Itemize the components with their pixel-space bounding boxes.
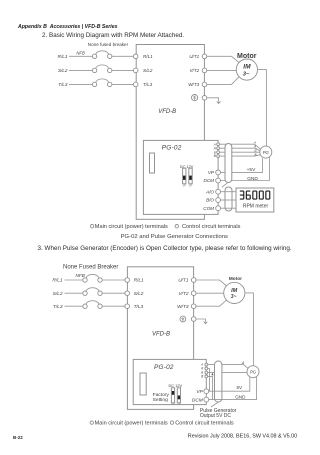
- svg-text:R/L1: R/L1: [143, 54, 153, 59]
- leader to note: [211, 402, 219, 407]
- svg-text:IM: IM: [243, 64, 251, 71]
- shaft wire motor to PG: [245, 293, 254, 366]
- wire PE to ground: [196, 319, 205, 322]
- terminal /A: [217, 147, 220, 150]
- terminal /B: [217, 155, 220, 158]
- terminal B: [217, 151, 220, 154]
- svg-text:DCM: DCM: [204, 178, 215, 183]
- svg-text:PG-02 and Pulse Generator Conn: PG-02 and Pulse Generator Connections: [121, 234, 228, 240]
- svg-text:A/O: A/O: [205, 189, 214, 194]
- wire B to PG: [220, 151, 260, 153]
- wire S/L2 to NFB: [65, 292, 83, 294]
- terminal T/L3: [125, 304, 130, 309]
- DIP switch 1: [183, 168, 186, 187]
- terminal U/T1: [191, 278, 196, 283]
- terminal /A: [205, 367, 208, 370]
- svg-text:3~: 3~: [231, 294, 237, 300]
- terminal VP: [204, 389, 209, 394]
- wire V/T2 to motor: [207, 69, 236, 71]
- DIP switch 2: [189, 168, 193, 187]
- legend: main circuit terminals: [90, 224, 168, 230]
- wire R/L1 to NFB: [65, 279, 83, 281]
- terminal V/T2: [202, 68, 207, 73]
- wire T/L3 to NFB: [65, 305, 83, 307]
- terminal DCM: [204, 397, 209, 402]
- svg-text:PG-02: PG-02: [162, 145, 182, 152]
- connector on PG-02: [150, 153, 155, 173]
- svg-text:VFD-B: VFD-B: [158, 109, 176, 115]
- svg-text:R/L1: R/L1: [134, 278, 144, 284]
- wire PE to ground: [207, 98, 219, 102]
- svg-text:NFB: NFB: [76, 273, 85, 278]
- terminal B/O: [216, 198, 221, 203]
- svg-text:VP: VP: [196, 389, 203, 395]
- DIP switch 1: [171, 388, 174, 406]
- svg-text:B/O: B/O: [206, 198, 214, 203]
- svg-text:S/L2: S/L2: [58, 68, 68, 73]
- terminal T/L3: [133, 82, 138, 87]
- svg-text:Revision July 2008, BE16, SW V: Revision July 2008, BE16, SW V4.08 & V5.…: [188, 433, 297, 439]
- svg-text:S/L2: S/L2: [134, 291, 144, 297]
- terminal V/T2: [191, 291, 196, 296]
- wire VP to +5V: [221, 158, 263, 172]
- svg-text:Control circuit terminals: Control circuit terminals: [182, 224, 241, 230]
- svg-text:DCM: DCM: [192, 397, 203, 403]
- svg-text:U/T1: U/T1: [189, 54, 199, 59]
- svg-text:IM: IM: [231, 288, 238, 294]
- terminal S/L2: [133, 68, 138, 73]
- svg-text:3. When Pulse Generator (Encod: 3. When Pulse Generator (Encoder) is Ope…: [38, 245, 292, 252]
- svg-text:B̅: B̅: [254, 153, 256, 157]
- svg-text:PG: PG: [250, 370, 257, 375]
- encoder PG: [260, 146, 272, 158]
- svg-text:T/L3: T/L3: [134, 304, 144, 310]
- svg-text:2P: 2P: [189, 184, 192, 188]
- svg-text:Main circuit (power) terminals: Main circuit (power) terminals: [95, 420, 168, 426]
- svg-text:W/T3: W/T3: [177, 304, 189, 310]
- terminal A: [205, 363, 208, 366]
- breaker NFB pole 1: [92, 51, 112, 59]
- svg-text:1P: 1P: [171, 402, 174, 406]
- wire /A tie to VP: [208, 369, 210, 392]
- svg-text:None Fused Breaker: None Fused Breaker: [63, 265, 118, 271]
- ground symbol: [204, 322, 208, 324]
- VFD-B drive box (diagram 3): [127, 267, 193, 410]
- svg-text:2P: 2P: [177, 402, 180, 406]
- wire NFB pole1 to VFD: [102, 279, 125, 281]
- svg-text:U/T1: U/T1: [178, 278, 189, 284]
- breaker NFB pole 2: [83, 288, 102, 296]
- shield arrow: [211, 373, 213, 375]
- terminal /B: [205, 375, 208, 378]
- svg-text:1P: 1P: [183, 184, 186, 188]
- terminal VP: [216, 170, 221, 175]
- RPM meter box: [236, 188, 274, 212]
- svg-text:T/L3: T/L3: [53, 304, 63, 310]
- wire NFB pole3 to VFD: [102, 305, 125, 307]
- wire COM to meter: [221, 207, 237, 209]
- svg-text:None fused breaker: None fused breaker: [88, 42, 129, 47]
- svg-text:RPM meter: RPM meter: [243, 204, 269, 210]
- wire A to PG: [208, 365, 248, 369]
- wire NFB pole1 to VFD R/L1: [112, 55, 133, 57]
- PG-02 card box (diagram 3): [133, 359, 206, 404]
- wire V/T2 to motor: [196, 292, 224, 294]
- terminal PE: [191, 317, 196, 322]
- wire NFB pole2 to VFD S/L2: [112, 69, 133, 71]
- terminal COM: [216, 206, 221, 211]
- svg-text:R/L1: R/L1: [58, 54, 68, 59]
- svg-text:Output 5V DC: Output 5V DC: [200, 413, 232, 419]
- wire U/T1 to motor: [207, 56, 240, 63]
- svg-text:VFD-B: VFD-B: [152, 331, 170, 337]
- svg-text:+5V: +5V: [247, 167, 256, 173]
- svg-text:VP: VP: [208, 170, 215, 175]
- svg-text:R/L1: R/L1: [52, 278, 62, 284]
- wire /B to PG: [220, 155, 261, 156]
- earth terminal symbol (circled ground): [192, 95, 198, 101]
- earth terminal symbol (circled ground): [180, 316, 186, 322]
- svg-text:W/T3: W/T3: [188, 82, 199, 87]
- motor IM 3~: [236, 59, 257, 80]
- cable shield capsule 1: [225, 144, 232, 183]
- terminal W/T3: [191, 304, 196, 309]
- svg-text:V/T2: V/T2: [178, 291, 188, 297]
- svg-text:PG-02: PG-02: [154, 364, 174, 371]
- svg-text:Main circuit (power) terminals: Main circuit (power) terminals: [95, 224, 168, 230]
- svg-text:COM: COM: [203, 206, 214, 211]
- wire VP to 5V: [209, 377, 250, 391]
- terminal R/L1: [133, 54, 138, 59]
- terminal A/O: [216, 189, 221, 194]
- svg-text:NFB: NFB: [76, 51, 85, 56]
- svg-text:DC 12V: DC 12V: [168, 383, 182, 388]
- wire NFB pole2 to VFD: [102, 292, 125, 294]
- wire A/O to meter: [221, 191, 237, 193]
- breaker NFB pole 3: [92, 79, 112, 87]
- terminal S/L2: [125, 291, 130, 296]
- svg-text:B̅: B̅: [201, 375, 203, 379]
- legend: main circuit terminals: [90, 420, 168, 426]
- terminal DCM: [216, 178, 221, 183]
- svg-text:T/L3: T/L3: [143, 82, 153, 87]
- shaft wire motor to PG: [258, 70, 267, 147]
- 7-segment display 36000: [240, 191, 270, 199]
- VFD-B drive box: [136, 45, 204, 220]
- legend: control circuit terminals: [175, 224, 241, 230]
- svg-text:PG: PG: [263, 150, 270, 155]
- shield slash: [222, 183, 228, 188]
- svg-text:T/L3: T/L3: [58, 82, 68, 87]
- cable shield capsule 2: [225, 187, 232, 211]
- connector on PG-02: [140, 373, 146, 395]
- svg-text:V/T2: V/T2: [189, 68, 199, 73]
- wire A to PG: [220, 144, 261, 149]
- svg-text:3~: 3~: [243, 71, 250, 77]
- DIP switch 2: [177, 388, 180, 406]
- terminal R/L1: [125, 278, 130, 283]
- svg-text:B-22: B-22: [13, 435, 23, 440]
- wire U/T1 to motor: [196, 280, 227, 287]
- svg-text:Control circuit terminals: Control circuit terminals: [175, 420, 234, 426]
- svg-text:Motor: Motor: [229, 276, 242, 281]
- svg-text:GND: GND: [247, 176, 258, 182]
- PG-02 card box: [143, 140, 218, 214]
- wire /A to PG: [220, 148, 260, 151]
- svg-text:5V: 5V: [237, 385, 244, 390]
- terminal A: [217, 143, 220, 146]
- svg-text:S/L2: S/L2: [143, 68, 153, 73]
- wire W/T3 to motor: [207, 75, 240, 84]
- wire S/L2 to NFB: [69, 69, 92, 71]
- svg-text:2. Basic Wiring Diagram with R: 2. Basic Wiring Diagram with RPM Meter A…: [42, 32, 184, 39]
- terminal B: [205, 371, 208, 374]
- motor IM 3~: [224, 282, 245, 303]
- svg-text:GND: GND: [235, 394, 246, 399]
- breaker NFB pole 3: [83, 301, 102, 309]
- svg-text:Factory: Factory: [153, 392, 170, 398]
- terminal PE: [202, 96, 207, 101]
- wire /B tie to DCM: [208, 376, 213, 399]
- wire T/L3 to NFB: [69, 83, 92, 85]
- encoder PG: [247, 366, 259, 378]
- wire DCM to GND: [209, 377, 257, 400]
- svg-text:S/L2: S/L2: [53, 291, 63, 297]
- svg-text:Appendix B Accessories | VFD-: Appendix B Accessories | VFD-B Series: [17, 24, 118, 30]
- svg-text:A: A: [241, 361, 245, 365]
- wire B/O to meter: [221, 199, 237, 201]
- svg-text:B̅: B̅: [214, 154, 216, 158]
- terminal U/T1: [202, 54, 207, 59]
- cable shield capsule: [215, 361, 222, 402]
- terminal W/T3: [202, 82, 207, 87]
- wire DCM to GND: [221, 157, 270, 181]
- breaker NFB pole 1: [83, 274, 102, 282]
- wire R/L1 to NFB: [69, 55, 92, 57]
- ground symbol: [217, 101, 221, 103]
- wire W/T3 to motor: [196, 299, 227, 306]
- svg-text:Setting: Setting: [153, 397, 169, 403]
- legend: control circuit terminals: [170, 420, 234, 426]
- breaker NFB pole 2: [92, 65, 112, 73]
- wire B to PG: [208, 372, 247, 374]
- wire NFB pole3 to VFD T/L3: [112, 83, 133, 85]
